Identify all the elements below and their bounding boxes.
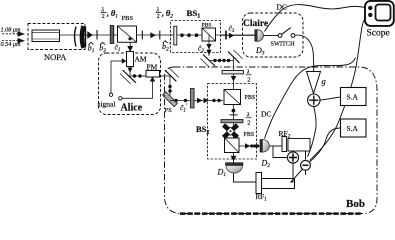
switch (278, 28, 295, 38)
svg-text:S.A: S.A (347, 93, 359, 102)
svg-text:g: g (322, 76, 326, 86)
wire lower PBS right to D2 (239, 145, 260, 147)
mirror A1 (120, 70, 136, 84)
wire c3 to D3 (221, 34, 255, 36)
svg-text:Claire: Claire (243, 19, 268, 29)
label b1-hat (88, 42, 95, 54)
wire adder2 bottom (291, 163, 294, 182)
wire DC from D3 to scope (265, 5, 369, 32)
wire D1 down (234, 173, 257, 182)
arrow down into BS2 (231, 76, 237, 82)
phase shifter PS (163, 92, 178, 107)
label lambda/2 theta2 (156, 7, 174, 20)
NOPA cavity mirror (75, 26, 86, 48)
RF2 body box (288, 139, 310, 152)
arrow down from AM (127, 68, 132, 73)
Bob dash-dot rounded box (165, 67, 378, 214)
polarizing beam splitter PBS (BS2 upper) (224, 90, 241, 105)
beam dots after PS (174, 99, 187, 102)
label b2-hat (99, 42, 106, 54)
label lambda/2 (above BS2) (246, 69, 252, 84)
svg-text:Scope: Scope (367, 29, 390, 39)
svg-text:PBS: PBS (245, 95, 256, 101)
beam tick before c3 (225, 31, 227, 40)
svg-text:λ: λ (246, 112, 250, 119)
svg-text:SWITCH: SWITCH (271, 40, 296, 47)
amplitude modulator AM (127, 52, 134, 67)
label 1.08um input (1, 27, 26, 37)
svg-text:signal: signal (98, 100, 116, 109)
svg-text:PBS: PBS (122, 15, 134, 22)
svg-text:PBS: PBS (244, 132, 255, 138)
polarizing beam splitter PBS (BS2 lower) (225, 138, 240, 153)
svg-text:2: 2 (102, 14, 105, 20)
beam dots to D2 (250, 144, 259, 147)
beam tick 2 (159, 31, 161, 40)
beam dots before BS1 PBS (180, 33, 198, 37)
wire A2 down to PS (169, 76, 171, 101)
label b2-hat-prime (162, 41, 171, 53)
svg-text:PBS: PBS (202, 22, 212, 28)
detector D1 (226, 163, 244, 173)
adder circle plus (lower) (287, 152, 298, 163)
rotator pinwheel element (224, 125, 238, 137)
arrow b1 (87, 31, 93, 38)
arrow down 1 (206, 44, 211, 49)
waveplate before BS2 (191, 89, 195, 109)
svg-text:PS: PS (165, 107, 173, 114)
wire mirrorA1 to PM (130, 75, 146, 77)
wire M1 to M2 horizontal (209, 60, 234, 62)
NOPA crystal (32, 30, 60, 42)
spectrum analyzer SA2 (341, 119, 367, 137)
wire DC from D2 (265, 58, 356, 139)
wire D2 to RF2 (270, 145, 282, 147)
signal terminal circle (109, 93, 112, 96)
beam tick b2 (96, 30, 98, 40)
arrow up into PM (150, 77, 155, 82)
Alice dashed rounded box (99, 53, 161, 115)
wire into adder2 left (273, 146, 288, 158)
arrows to D2 (245, 143, 250, 148)
wire main horizontal beam (60, 34, 255, 36)
svg-text:2: 2 (247, 77, 250, 84)
wire PM to mirror A2 (160, 75, 171, 77)
mirror A2 (165, 68, 179, 81)
beam ticks below upper PBS (232, 109, 236, 113)
wire BS1 PBS down (208, 35, 210, 56)
svg-text:PM: PM (147, 63, 158, 72)
Claire dashed rounded box (243, 13, 304, 57)
RF1 filter (256, 173, 295, 194)
beam tick 1 (141, 31, 143, 40)
NOPA dashed box (28, 24, 85, 50)
wire D3 to switch (264, 35, 278, 37)
arrow down into AM (127, 46, 133, 52)
Scope (365, 1, 394, 26)
arrow down 2 (206, 50, 211, 55)
svg-text:NOPA: NOPA (44, 52, 67, 62)
label 0.54um input (1, 38, 26, 48)
polarizing beam splitter PBS in BS1 (202, 28, 216, 41)
svg-text:Alice: Alice (121, 102, 143, 113)
svg-text:λ: λ (246, 69, 250, 76)
spectrum analyzer SA1 (341, 88, 367, 106)
label lambda/2 theta1 (101, 7, 119, 20)
svg-text:AM: AM (135, 55, 147, 64)
mirror M2 (228, 50, 243, 63)
svg-text:2: 2 (247, 120, 250, 127)
wire signal vertical (110, 61, 112, 93)
wire switch to g amplifier (295, 35, 314, 71)
beam dots between mirrors (213, 59, 230, 62)
wire long curve to scope input2 (310, 15, 371, 160)
wire adder1 down to cluster (308, 106, 317, 156)
wire signal to PM (122, 81, 153, 98)
MAIN-BEAM-GROUP (60, 34, 255, 36)
Bob box thick bottom edge (180, 212, 362, 215)
svg-text:DC: DC (277, 3, 287, 12)
beam dots into BS2 (212, 99, 220, 102)
wire subtractor to SA2 (310, 128, 341, 162)
RF2 filter (282, 137, 287, 152)
adder circle plus (upper) (308, 94, 320, 107)
wire M2 down into BS2 (233, 57, 235, 90)
wire PS right to BS2 (170, 100, 223, 102)
waveplate inside BS2 (221, 120, 243, 123)
wire PBS1 down to AM (129, 42, 131, 52)
wire lower PBS down to D1 (233, 153, 235, 163)
subtractor circle minus (301, 160, 311, 170)
wire adder1 to SA1 (320, 97, 341, 100)
wire AM down (129, 67, 131, 77)
label lambda/2 (inside BS2) (246, 112, 252, 127)
wire RF2 to subtractor (305, 151, 307, 161)
arrow c3 (229, 33, 234, 39)
BS1 dashed box (171, 21, 221, 53)
mirror M1 below BS1 (201, 55, 216, 68)
BS2 dashed box (208, 84, 257, 160)
waveplate HWP1 (110, 26, 114, 44)
svg-text:DC: DC (261, 110, 271, 119)
waveplate above BS2 (222, 71, 244, 74)
beam dots to PM (133, 74, 142, 77)
detector D3 (255, 30, 264, 42)
svg-text:2: 2 (157, 14, 160, 20)
arrow into AM (122, 58, 127, 63)
arrow down to D1 (231, 156, 237, 162)
wire RF1 to subtractor (291, 169, 304, 183)
svg-text:Bob: Bob (346, 198, 365, 210)
phase modulator PM (146, 71, 160, 78)
polarizing beam splitter PBS1 (118, 26, 137, 42)
wire subtractor bottom (305, 170, 307, 175)
g amplifier triangle (307, 72, 321, 94)
wire signal to AM (111, 60, 123, 62)
signal source circle (119, 97, 122, 100)
wire PBS down inside BS2 (233, 105, 235, 139)
waveplate in BS1 (174, 26, 177, 45)
beam dots A2-PS (168, 85, 171, 93)
beam arrow right (150, 32, 155, 38)
svg-text:S.A: S.A (347, 124, 359, 133)
detector D2 (260, 140, 269, 153)
arrows into BS2 left (197, 98, 203, 103)
